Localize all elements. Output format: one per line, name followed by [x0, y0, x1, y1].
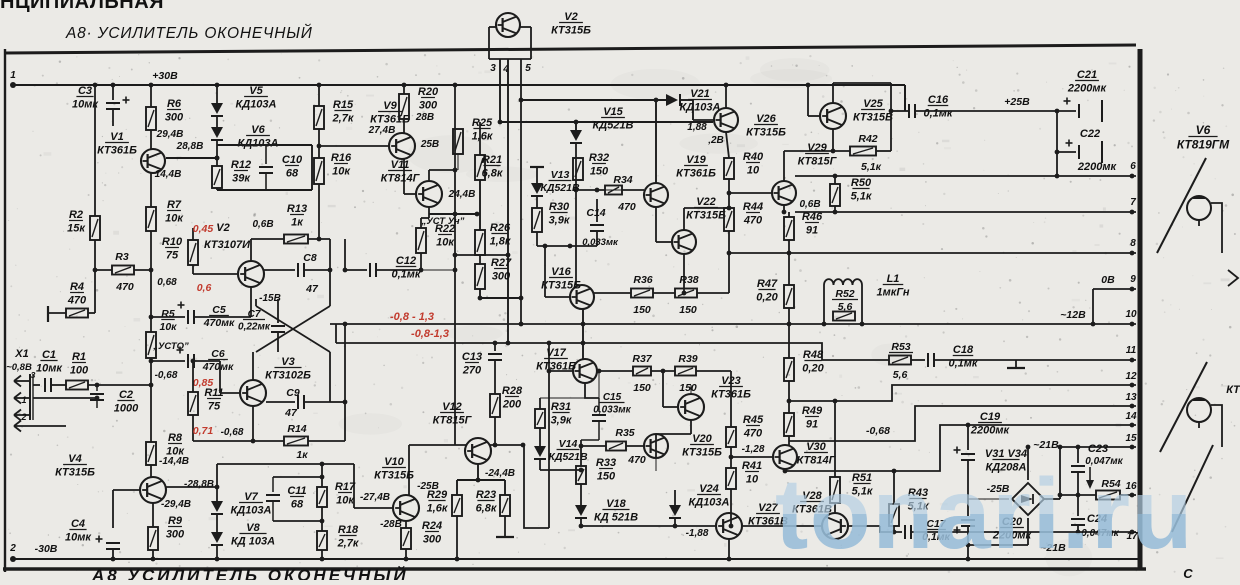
wire — [904, 110, 906, 112]
wire to V10 — [408, 445, 410, 495]
transistor V11 — [416, 181, 442, 207]
wire row 255 — [455, 254, 508, 256]
svg-text:С3: С3 — [78, 85, 92, 97]
wire V11 collector — [428, 170, 430, 181]
wire -30V rail — [13, 558, 1140, 560]
wire V2 collector — [250, 239, 252, 261]
wire V3 base col — [219, 361, 221, 393]
resistor R48 — [784, 358, 794, 381]
resistor R25 — [453, 129, 463, 154]
svg-text:V2: V2 — [564, 11, 577, 23]
voltage -29,4В — [161, 499, 191, 510]
junction — [787, 251, 792, 256]
wire col 549 — [548, 341, 550, 528]
transistor V4 label — [55, 453, 95, 479]
wire bridge top — [1027, 447, 1029, 480]
wire R46 top — [788, 212, 790, 217]
junction — [215, 83, 220, 88]
resistor R46 label — [802, 211, 823, 237]
wire R33 top — [580, 440, 582, 466]
svg-text:R41: R41 — [742, 460, 762, 472]
wire — [536, 196, 538, 208]
svg-text:8: 8 — [1130, 238, 1136, 249]
junction — [682, 291, 687, 296]
svg-text:R24: R24 — [422, 520, 442, 532]
wire R37 left — [599, 370, 633, 372]
svg-text:С23: С23 — [1088, 443, 1108, 455]
wire centre column — [454, 85, 456, 445]
svg-text:С5: С5 — [212, 304, 226, 316]
capacitor C2 — [90, 394, 104, 400]
resistor R54 name — [1101, 478, 1120, 490]
svg-text:КД521В: КД521В — [592, 120, 633, 132]
resistor R34 name — [613, 174, 632, 186]
svg-text:R9: R9 — [168, 515, 183, 527]
wire — [150, 130, 152, 149]
junction — [568, 244, 573, 249]
junction — [149, 268, 154, 273]
junction — [1130, 423, 1135, 428]
capacitor C4 — [96, 536, 121, 550]
voltage -27,4В — [360, 492, 390, 503]
resistor R51 label — [852, 472, 874, 498]
junction — [476, 478, 481, 483]
wire — [580, 484, 582, 505]
wire — [728, 179, 730, 208]
diode V13 — [531, 183, 543, 196]
wire — [216, 140, 218, 166]
svg-text:R7: R7 — [167, 199, 182, 211]
capacitor C22 value — [1077, 161, 1118, 173]
capacitor C18 — [928, 353, 934, 367]
junction — [727, 251, 732, 256]
wire R21 top — [479, 122, 481, 155]
resistor R52 label — [832, 288, 858, 313]
resistor R6 — [146, 107, 156, 130]
wire — [152, 503, 154, 527]
svg-text:6,8к: 6,8к — [476, 503, 498, 515]
svg-text:-28,8В: -28,8В — [184, 479, 214, 490]
wire V23 collector stub — [690, 385, 692, 394]
svg-text:0,6В: 0,6В — [799, 199, 820, 210]
junction — [93, 268, 98, 273]
wire V26 collector — [725, 85, 727, 108]
svg-text:R45: R45 — [743, 414, 764, 426]
wire feedback col — [344, 324, 346, 441]
wire cross diagonal 1 — [256, 306, 330, 352]
resistor R7 — [146, 207, 156, 231]
junction — [95, 396, 100, 401]
resistor R37 value — [633, 382, 651, 394]
svg-text:1,88: 1,88 — [687, 122, 707, 133]
junction — [892, 530, 897, 535]
svg-text:V24: V24 — [699, 483, 719, 495]
svg-text:КТ3107И: КТ3107И — [204, 239, 251, 251]
svg-text:10к: 10к — [159, 321, 177, 333]
svg-text:V12: V12 — [442, 401, 462, 413]
svg-text:75: 75 — [166, 250, 179, 262]
voltage -1,88 — [686, 528, 709, 539]
wire — [216, 545, 218, 559]
svg-text:0,6: 0,6 — [197, 282, 212, 294]
svg-text:R6: R6 — [167, 98, 182, 110]
capacitor C14 value — [582, 237, 619, 248]
svg-text:С21: С21 — [1077, 69, 1097, 81]
pin 10 label — [1125, 309, 1137, 320]
diode V8 label — [231, 522, 275, 548]
svg-text:15к: 15к — [67, 223, 86, 235]
svg-text:470: 470 — [617, 201, 636, 213]
junction — [966, 423, 971, 428]
svg-text:R15: R15 — [333, 99, 354, 111]
svg-text:V18: V18 — [606, 498, 626, 510]
junction — [1055, 174, 1060, 179]
voltage ~0,8В — [6, 362, 32, 373]
svg-text:28В: 28В — [415, 112, 434, 123]
resistor R45 — [726, 427, 736, 447]
junction — [547, 341, 552, 346]
wire — [112, 490, 114, 528]
wire V10 base — [354, 507, 393, 509]
wire line9 — [1093, 288, 1136, 290]
voltage -0,68 — [155, 370, 178, 381]
arrow mark down right — [1086, 467, 1094, 489]
svg-text:R14: R14 — [287, 423, 306, 435]
voltage 0,6В — [252, 219, 273, 230]
wire V29 emitter — [783, 205, 785, 212]
resistor R31 — [535, 409, 545, 428]
pin 16 label — [1125, 481, 1137, 492]
wire V2 base — [193, 273, 238, 275]
junction — [93, 83, 98, 88]
transistor V2 KT3107 — [238, 261, 264, 287]
svg-text:КД103А: КД103А — [235, 99, 276, 111]
junction — [149, 383, 154, 388]
wire V23 emitter — [690, 420, 692, 434]
wire R47 top — [788, 253, 790, 285]
diode V5 — [211, 103, 223, 116]
svg-text:25В: 25В — [420, 139, 439, 150]
wire R49 top — [788, 401, 790, 413]
ground stub line11 — [1015, 359, 1017, 361]
resistor R50 — [830, 184, 840, 206]
svg-text:КТ315Б: КТ315Б — [374, 470, 414, 482]
capacitor C7 label — [238, 309, 271, 333]
wire V12 collector row — [490, 444, 524, 446]
svg-text:6: 6 — [1130, 161, 1136, 172]
transistor output 2 slash — [1160, 362, 1207, 452]
transistor V12 label — [433, 401, 473, 427]
svg-text:С2: С2 — [119, 389, 133, 401]
svg-text:R31: R31 — [551, 401, 571, 413]
wire — [494, 361, 496, 394]
wire rail -0,8-1,3 lower — [336, 343, 853, 360]
net 0V label — [1101, 274, 1115, 286]
svg-text:R53: R53 — [891, 341, 910, 353]
junction — [320, 557, 325, 562]
junction — [1130, 358, 1135, 363]
connector X1 body — [30, 374, 33, 420]
wire C2 top — [96, 385, 98, 391]
junction — [543, 244, 548, 249]
junction — [547, 369, 552, 374]
wire V26 emitter — [726, 132, 729, 158]
voltage 0,71 red — [193, 425, 214, 437]
svg-text:R35: R35 — [615, 427, 634, 439]
diode V14 label — [548, 438, 588, 463]
wire C11 top row — [273, 476, 322, 478]
capacitor C5 label — [203, 304, 235, 329]
wire — [656, 241, 672, 243]
svg-text:Х1: Х1 — [14, 348, 28, 360]
junction — [579, 524, 584, 529]
resistor R48 label — [802, 349, 824, 375]
voltage -0,8-1,3 red second — [411, 328, 449, 340]
wire R25 bottom — [457, 154, 459, 170]
frame left border — [4, 49, 6, 572]
resistor R40 — [724, 158, 734, 179]
svg-text:12: 12 — [1125, 371, 1137, 382]
wire R23 top — [504, 480, 506, 495]
junction — [453, 253, 458, 258]
resistor R30 label — [549, 201, 571, 227]
capacitor C17 label — [922, 518, 950, 543]
junction — [402, 83, 407, 88]
capacitor C15 — [592, 415, 606, 421]
schematic title bottom — [91, 565, 409, 585]
junction — [729, 524, 734, 529]
junction — [149, 359, 154, 364]
wire — [833, 82, 891, 84]
voltage 27,4В — [368, 125, 396, 136]
resistor R10 label — [162, 236, 183, 262]
wire — [404, 193, 416, 195]
diode V24 — [669, 505, 681, 518]
wire C9 left — [266, 401, 295, 403]
svg-text:С14: С14 — [586, 207, 605, 219]
capacitor C9 value — [284, 407, 298, 419]
inductor L1 — [824, 279, 862, 285]
wire C15 col top — [598, 371, 600, 398]
pin 4 label — [502, 64, 509, 75]
svg-text:470мк: 470мк — [202, 361, 234, 373]
wire V9 base — [319, 145, 389, 147]
junction — [343, 322, 348, 327]
capacitor C20 — [954, 520, 976, 534]
wire V28 base row — [742, 525, 822, 527]
junction — [727, 557, 732, 562]
junction — [453, 168, 458, 173]
junction — [343, 400, 348, 405]
svg-text:-0,68: -0,68 — [866, 425, 890, 437]
junction — [806, 83, 811, 88]
wire C23 top — [1077, 447, 1079, 463]
wire R11 top — [192, 361, 194, 392]
capacitor C16 — [909, 104, 915, 118]
junction — [320, 462, 325, 467]
svg-text:200: 200 — [502, 399, 522, 411]
resistor R26 — [475, 230, 485, 255]
resistor R34 value — [617, 201, 636, 213]
wire V16 emitter to V17 — [582, 309, 584, 359]
voltage -25В — [417, 481, 439, 492]
resistor R39 value — [679, 382, 697, 394]
resistor R14 value — [296, 449, 308, 461]
svg-text:1к: 1к — [291, 217, 304, 229]
svg-text:R33: R33 — [596, 457, 616, 469]
wire — [539, 428, 541, 446]
transistor V2 top label — [551, 11, 591, 37]
diode V24 label — [688, 483, 729, 509]
junction — [111, 557, 116, 562]
junction — [521, 443, 526, 448]
svg-text:V7: V7 — [244, 491, 258, 503]
svg-text:2: 2 — [20, 412, 26, 422]
pin 9 label — [1130, 274, 1136, 285]
wire — [150, 358, 152, 385]
resistor R1 label — [70, 351, 89, 377]
svg-text:V6: V6 — [1196, 123, 1211, 137]
junction — [149, 315, 154, 320]
wire L1 right leg — [861, 285, 863, 324]
svg-text:6,8к: 6,8к — [482, 168, 504, 180]
voltage 28В — [415, 112, 434, 123]
wire V18 to V24 — [581, 525, 675, 527]
capacitor C1 label — [36, 349, 63, 375]
svg-text:11: 11 — [1126, 345, 1137, 356]
capacitor C23 name — [1088, 443, 1108, 455]
transistor V6 output slash — [1157, 158, 1206, 253]
svg-text:5,6: 5,6 — [893, 369, 908, 381]
resistor R44 — [724, 208, 734, 231]
wire — [697, 292, 729, 294]
wire — [967, 461, 969, 516]
svg-text:КД521В: КД521В — [540, 182, 580, 194]
wire — [728, 231, 730, 253]
wire R29 top — [456, 480, 458, 495]
wire C21C22 col — [1056, 111, 1058, 176]
svg-text:5,1к: 5,1к — [861, 161, 882, 173]
capacitor C23 value — [1085, 456, 1123, 467]
wire — [891, 110, 905, 112]
svg-text:С4: С4 — [71, 518, 85, 530]
capacitor C19 — [954, 447, 976, 461]
resistor R5 label — [159, 308, 177, 333]
wire — [272, 502, 274, 521]
wire — [421, 269, 455, 271]
pin 5 label — [525, 63, 531, 74]
svg-text:V1: V1 — [110, 131, 123, 143]
svg-text:R20: R20 — [418, 86, 439, 98]
connector stub bar — [47, 306, 49, 322]
transistor V11 label — [381, 159, 421, 185]
capacitor C24 name — [1087, 513, 1107, 525]
svg-text:R36: R36 — [633, 274, 652, 286]
svg-text:С16: С16 — [928, 94, 949, 106]
wire C19 top — [967, 425, 969, 450]
wire row 122 — [500, 121, 713, 123]
wire R27 bottom — [479, 289, 481, 298]
wire R11 bottom — [192, 415, 194, 441]
resistor R35 value — [627, 454, 646, 466]
svg-text:НЦИПИАЛЬНАЯ: НЦИПИАЛЬНАЯ — [0, 0, 164, 13]
transistor V25 — [820, 103, 846, 129]
svg-text:91: 91 — [806, 419, 818, 431]
resistor R41 — [726, 468, 736, 489]
svg-text:КТ315Б: КТ315Б — [55, 467, 95, 479]
transistor V2 top bracket — [489, 27, 531, 59]
pin 11 label — [1126, 345, 1137, 356]
wire V30 base — [731, 456, 773, 458]
svg-text:R16: R16 — [331, 152, 352, 164]
resistor R37 — [633, 367, 651, 376]
wire R17 top — [321, 464, 323, 487]
wire line6 — [795, 175, 1136, 177]
wire C21 lead — [1057, 110, 1076, 112]
svg-text:V29: V29 — [807, 142, 827, 154]
svg-text:+25В: +25В — [1004, 96, 1030, 108]
junction — [215, 557, 220, 562]
resistor R49 label — [802, 405, 823, 431]
wire — [318, 85, 320, 106]
svg-text:2200мк: 2200мк — [970, 425, 1011, 437]
wire line14 path — [785, 425, 1136, 471]
wire — [916, 110, 1057, 112]
svg-text:-30В: -30В — [35, 543, 58, 555]
wire bridge right — [1044, 498, 1060, 500]
capacitor C8 name — [303, 252, 317, 264]
pin 7 label — [1130, 197, 1136, 208]
svg-text:2200мк: 2200мк — [1067, 83, 1108, 95]
transistor V28 — [822, 513, 848, 539]
transistor V9 label — [370, 100, 410, 126]
voltage 25В — [420, 139, 439, 150]
svg-text:КД521В: КД521В — [548, 451, 588, 463]
junction — [833, 399, 838, 404]
title block top-left fragment — [0, 0, 164, 13]
wire line12 path — [789, 385, 1136, 401]
connector X1 pin 1 label — [21, 395, 26, 405]
wire — [808, 115, 820, 117]
svg-text:10к: 10к — [332, 166, 351, 178]
svg-text:150: 150 — [633, 304, 651, 316]
resistor R36 — [631, 289, 653, 298]
svg-text:470: 470 — [627, 454, 646, 466]
wire line11 right — [934, 359, 1136, 361]
wire R51 top col — [834, 401, 836, 477]
svg-text:27,4В: 27,4В — [368, 125, 396, 136]
wire — [663, 406, 678, 408]
junction — [724, 83, 729, 88]
svg-text:R39: R39 — [678, 353, 697, 365]
svg-text:0,45: 0,45 — [193, 223, 214, 235]
resistor R23 — [500, 495, 510, 516]
watermark tonari.ru — [775, 458, 1194, 570]
svg-text:R38: R38 — [679, 274, 698, 286]
junction — [453, 212, 458, 217]
wire — [653, 292, 675, 294]
wire — [655, 458, 657, 471]
junction — [787, 399, 792, 404]
junction — [1130, 287, 1135, 292]
svg-text:V17: V17 — [546, 347, 566, 359]
resistor R32 label — [589, 152, 609, 178]
wire R13C12 col — [344, 239, 346, 270]
voltage 1,2В — [707, 135, 724, 146]
capacitor C3 — [106, 97, 130, 110]
svg-text:V10: V10 — [384, 456, 404, 468]
transistor V9 — [389, 133, 415, 159]
